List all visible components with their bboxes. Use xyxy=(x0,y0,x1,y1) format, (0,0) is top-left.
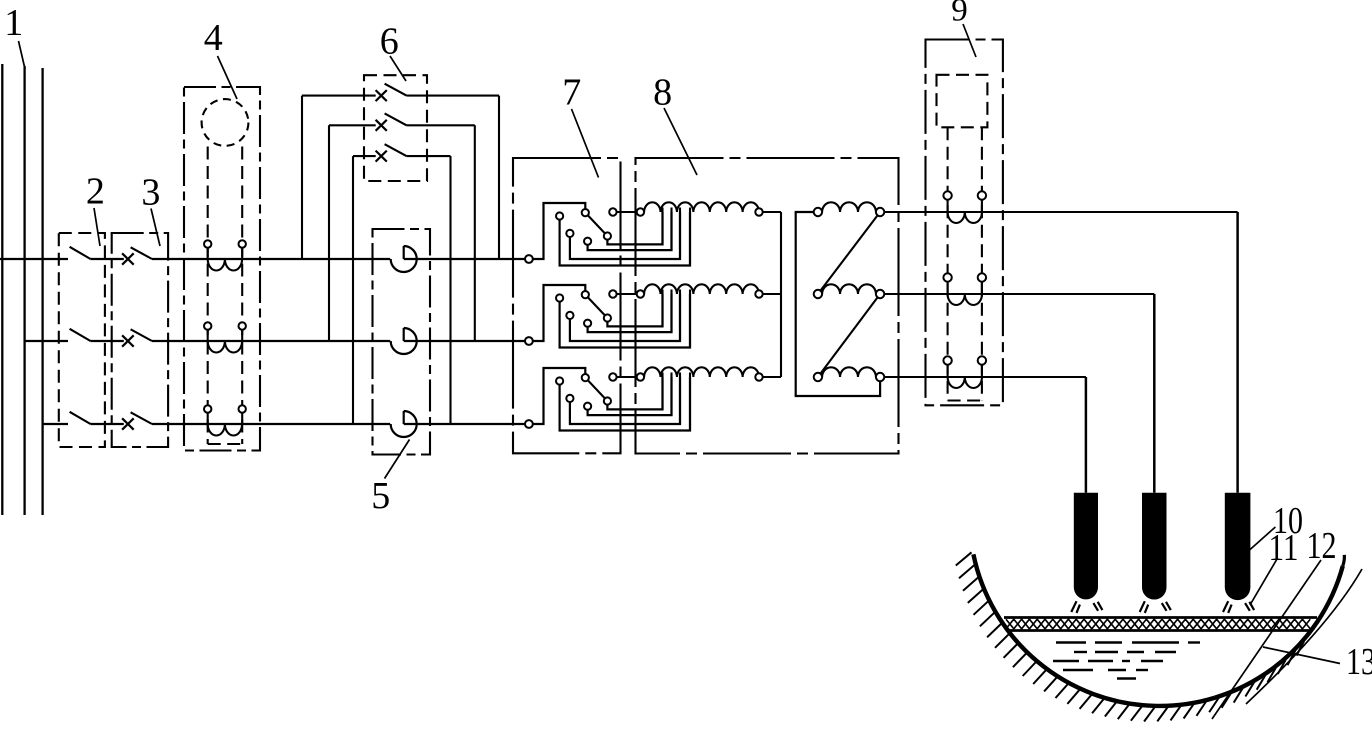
tap contact D phase A with lead xyxy=(588,212,672,250)
tap contact A phase C xyxy=(582,374,589,381)
bypass wire phase B rising xyxy=(328,125,330,341)
tap contact C phase B with lead xyxy=(570,294,680,341)
bypass switch enclosure 6 xyxy=(364,75,427,181)
charge layer top line (12) xyxy=(1004,616,1317,619)
leader for label 5 xyxy=(385,440,410,479)
svg-text:1: 1 xyxy=(4,2,23,44)
leader for label 7 xyxy=(572,109,599,178)
tap contact A phase A xyxy=(582,209,589,216)
svg-text:3: 3 xyxy=(141,172,160,214)
CT winding phase B (unit 9) xyxy=(948,294,982,305)
reactor phase B (box 5) xyxy=(391,328,417,354)
breaker contact cross phase A xyxy=(122,253,134,264)
tap-changer terminal phase B xyxy=(525,337,533,345)
svg-text:9: 9 xyxy=(951,0,968,29)
CT secondary terminals phase B (unit 4) xyxy=(207,330,209,341)
bypass wire phase B to switch xyxy=(329,124,376,126)
busbar L1 xyxy=(1,64,3,515)
svg-text:4: 4 xyxy=(204,17,223,59)
CT secondary terminals phase A (unit 4) xyxy=(207,248,209,259)
bypass switch cross phase B xyxy=(376,120,387,131)
instrument box (unit 9) xyxy=(937,75,988,128)
svg-text:13: 13 xyxy=(1346,641,1372,683)
secondary output wire phase B xyxy=(884,293,1154,295)
dashed lead right (unit 9) xyxy=(981,127,983,400)
svg-text:7: 7 xyxy=(562,72,581,114)
circuit-breaker enclosure 3 xyxy=(112,233,168,447)
reactor enclosure 5 xyxy=(373,229,431,455)
leader for label 1 xyxy=(19,41,26,69)
breaker blade phase A xyxy=(131,247,152,259)
tap selector arm phase A xyxy=(585,213,607,236)
dashed secondary lead right (unit 4) xyxy=(241,147,243,445)
tap contact B phase B with lead xyxy=(560,294,690,348)
tap contact C phase A with lead xyxy=(570,212,680,259)
disconnector enclosure 2 xyxy=(59,233,105,447)
CT secondary terminals phase C (unit 9) xyxy=(947,365,949,377)
tap-changer terminal phase C xyxy=(525,420,533,428)
bypass switch cross phase C xyxy=(376,151,387,162)
secondary CT enclosure 9 xyxy=(926,40,1003,406)
bypass wire phase C rising xyxy=(352,156,354,424)
bypass wire phase A return xyxy=(407,95,500,97)
bypass wire phase A to switch xyxy=(302,95,376,97)
electrode 2 (10) xyxy=(1142,493,1167,600)
CT winding phase A (unit 4) xyxy=(208,259,242,271)
tap pivot phase B with lead xyxy=(607,294,662,326)
svg-text:6: 6 xyxy=(380,21,399,63)
tap contact D phase B with lead xyxy=(588,294,672,332)
tap contact D phase C with lead xyxy=(588,377,672,415)
breaker blade phase C xyxy=(131,412,152,424)
wire phase C from busbar to tap-changer terminal xyxy=(43,423,68,425)
primary winding phase A (transformer 8) xyxy=(609,208,616,215)
furnace shell (bowl) xyxy=(973,554,1342,706)
CT winding phase C (unit 9) xyxy=(948,377,982,388)
primary winding taps phase B xyxy=(661,290,663,327)
instrument circle in unit 4 xyxy=(202,99,249,146)
electric arc marks under electrode 1 (11) xyxy=(1071,601,1076,612)
bypass switch blade phase A xyxy=(385,84,407,96)
tap contact A phase B xyxy=(582,291,589,298)
primary star bus xyxy=(780,212,782,377)
leader for label 10 xyxy=(1248,527,1275,551)
electric arc marks under electrode 2 (11) xyxy=(1140,601,1145,612)
leader for label 3 xyxy=(151,209,160,247)
bypass wire phase C return xyxy=(407,155,451,157)
bypass wire phase C to switch xyxy=(353,155,376,157)
liquid metal bath (13) xyxy=(1056,641,1086,643)
leader for label 12 xyxy=(1212,560,1321,719)
reactor phase A (box 5) xyxy=(391,246,417,272)
secondary winding phase A (transformer 8) xyxy=(822,202,876,212)
tap pivot phase C with lead xyxy=(607,377,662,409)
svg-text:8: 8 xyxy=(653,72,672,114)
primary winding phase C (transformer 8) xyxy=(609,373,616,380)
tap-changer feed wire phase B xyxy=(533,285,585,341)
CT secondary terminals phase B (unit 9) xyxy=(947,282,949,294)
electrode 3 (10) xyxy=(1225,493,1251,600)
leader for label 11 xyxy=(1250,559,1277,605)
tap contact C phase C with lead xyxy=(570,377,680,424)
furnace lining hatching xyxy=(956,552,972,565)
primary winding taps phase C xyxy=(661,373,663,410)
charge layer cross-hatch (12) xyxy=(1006,619,1310,629)
svg-text:5: 5 xyxy=(371,475,390,517)
leader for label 9 xyxy=(963,24,976,57)
dashed bottom link (unit 9) xyxy=(948,399,982,401)
busbar L3 xyxy=(41,68,43,515)
delta link winding1-winding2 xyxy=(818,212,880,294)
primary winding phase B (transformer 8) xyxy=(609,290,616,297)
secondary output wire phase A xyxy=(884,211,1237,213)
bypass switch blade phase C xyxy=(385,144,407,156)
tap pivot phase A with lead xyxy=(607,212,662,244)
tap-changer feed wire phase A xyxy=(533,203,585,259)
breaker blade phase B xyxy=(131,329,152,341)
dashed bottom link (unit 4) xyxy=(208,443,243,445)
leader for label 13 xyxy=(1263,647,1340,664)
tap-changer feed wire phase C xyxy=(533,368,585,424)
charge layer bottom line xyxy=(1007,629,1312,632)
disconnector blade phase C xyxy=(70,412,91,424)
tap selector arm phase C xyxy=(585,378,607,401)
bypass wire phase A rising xyxy=(301,96,303,259)
delta closing link winding3-winding1 xyxy=(796,212,880,396)
transformer enclosure 8 xyxy=(636,158,899,454)
secondary winding phase C (transformer 8) xyxy=(822,367,876,377)
reactor phase C (box 5) xyxy=(391,411,417,437)
CT secondary terminals phase A (unit 9) xyxy=(947,200,949,212)
busbar L2 xyxy=(23,66,25,515)
secondary output wire phase C xyxy=(884,376,1086,378)
tap contact B phase A with lead xyxy=(560,212,690,266)
wire phase B from busbar to tap-changer terminal xyxy=(25,340,68,342)
disconnector blade phase B xyxy=(70,329,91,341)
dashed lead left (unit 9) xyxy=(947,127,949,400)
leader for label 8 xyxy=(664,108,697,175)
svg-text:11: 11 xyxy=(1269,527,1299,569)
auxiliary leader line at furnace right xyxy=(1246,569,1362,704)
CT secondary terminals phase C (unit 4) xyxy=(207,413,209,424)
wire phase A from busbar to tap-changer terminal xyxy=(0,258,68,260)
CT winding phase A (unit 9) xyxy=(948,212,982,223)
CT winding phase B (unit 4) xyxy=(208,341,242,353)
dashed secondary lead left (unit 4) xyxy=(207,147,209,445)
disconnector blade phase A xyxy=(70,247,91,259)
tap-changer terminal phase A xyxy=(525,255,533,263)
bypass switch blade phase B xyxy=(385,113,407,125)
primary winding taps phase A xyxy=(661,208,663,245)
tap selector arm phase B xyxy=(585,295,607,318)
secondary winding phase B (transformer 8) xyxy=(822,284,876,294)
leader for label 6 xyxy=(390,56,406,81)
electrode 1 (10) xyxy=(1074,493,1098,600)
bypass wire phase B return xyxy=(407,124,475,126)
leader for label 2 xyxy=(94,208,100,246)
tap-changer enclosure 7 xyxy=(513,158,621,453)
delta link winding2-winding3 xyxy=(818,294,880,377)
leader for label 4 xyxy=(218,56,238,99)
measuring unit enclosure 4 xyxy=(184,87,260,451)
svg-text:2: 2 xyxy=(86,171,105,213)
bypass switch cross phase A xyxy=(376,90,387,101)
CT winding phase C (unit 4) xyxy=(208,424,242,436)
tap contact B phase C with lead xyxy=(560,377,690,431)
breaker contact cross phase B xyxy=(122,335,134,346)
electric arc marks under electrode 3 (11) xyxy=(1223,601,1228,612)
breaker contact cross phase C xyxy=(122,418,134,429)
